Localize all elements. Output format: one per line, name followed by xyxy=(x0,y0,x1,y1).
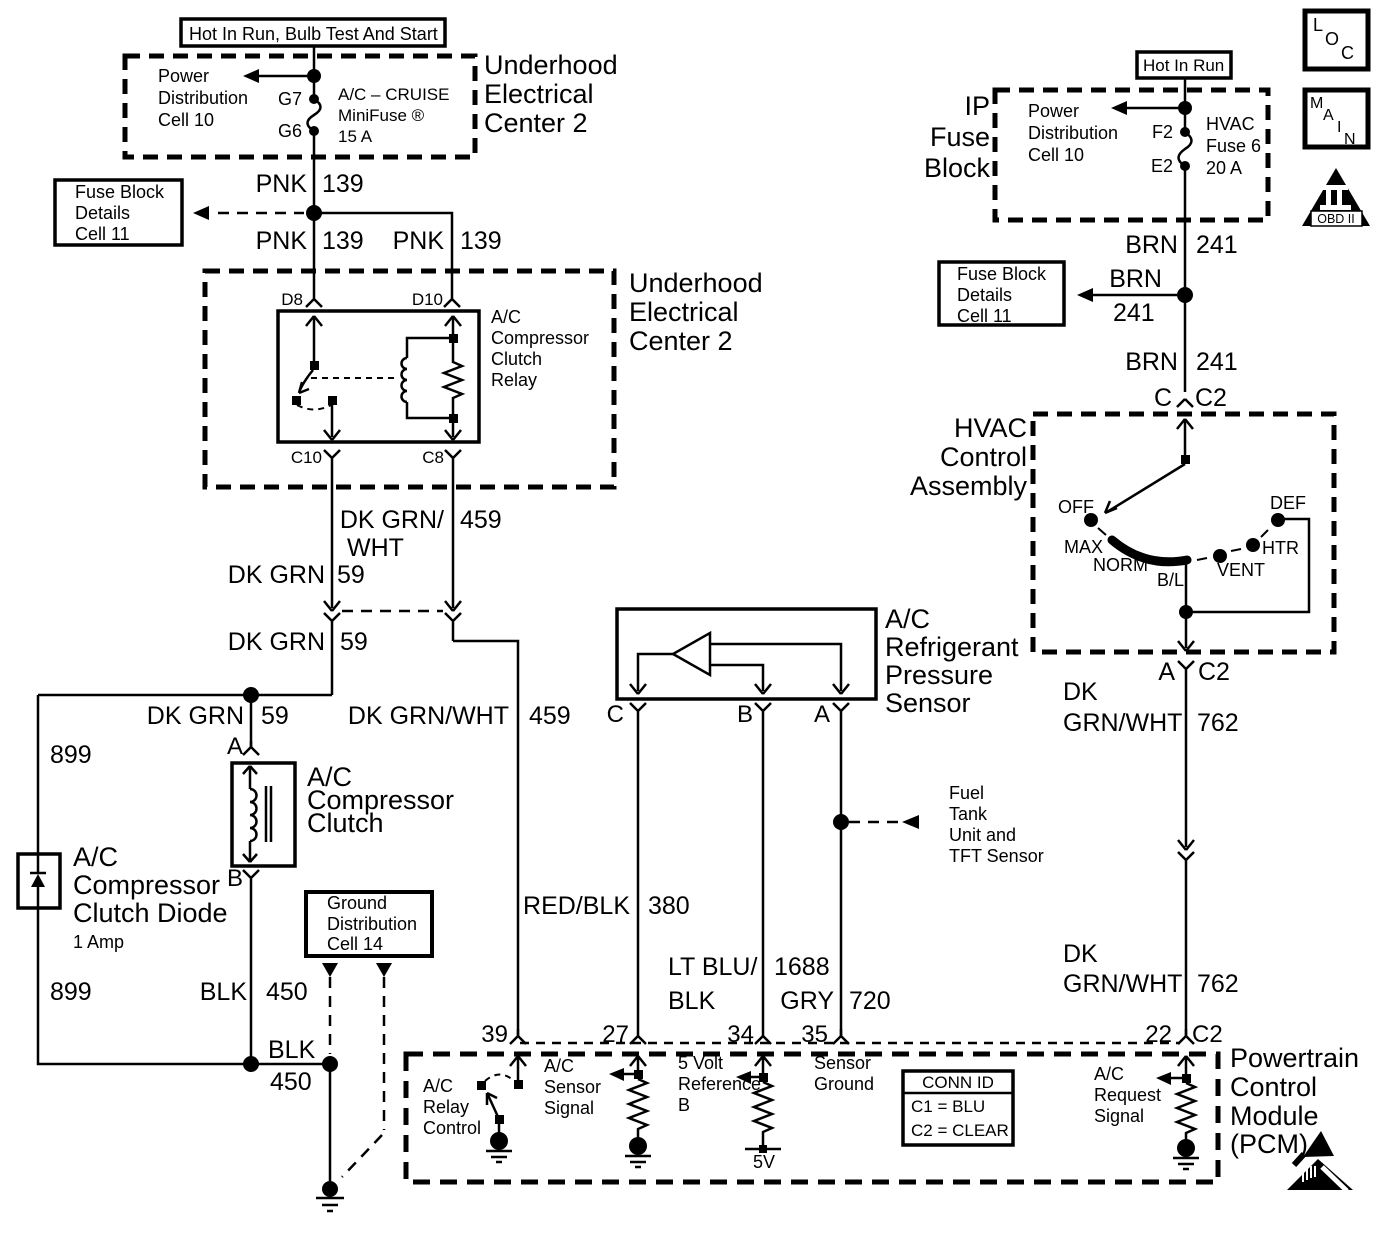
svg-text:Cell 11: Cell 11 xyxy=(957,306,1012,326)
node Hot In Run, Bulb Test And Start xyxy=(181,19,445,46)
svg-text:899: 899 xyxy=(50,741,92,769)
svg-text:VENT: VENT xyxy=(1217,560,1265,580)
svg-text:Details: Details xyxy=(957,285,1012,305)
svg-text:762: 762 xyxy=(1197,970,1239,998)
svg-text:139: 139 xyxy=(322,227,364,255)
svg-text:27: 27 xyxy=(602,1021,629,1048)
diode D1 A/C Compressor Clutch Diode xyxy=(18,854,60,908)
svg-text:Reference: Reference xyxy=(678,1074,761,1094)
wire to D8 xyxy=(313,213,316,294)
svg-text:DEF: DEF xyxy=(1270,493,1306,513)
switch contact arc MAX-NORM-B/L xyxy=(1112,540,1187,562)
svg-text:C2: C2 xyxy=(1192,1021,1223,1048)
svg-text:PNK: PNK xyxy=(256,227,308,255)
op-amp element inside sensor xyxy=(673,633,710,675)
svg-text:5 Volt: 5 Volt xyxy=(678,1053,723,1073)
dashed connector link xyxy=(342,610,443,613)
svg-text:C10: C10 xyxy=(291,448,322,467)
svg-text:22: 22 xyxy=(1145,1021,1172,1048)
dashed link OFF to MAX xyxy=(1098,528,1106,535)
svg-text:Relay: Relay xyxy=(491,370,537,390)
svg-text:Fuse 6: Fuse 6 xyxy=(1206,136,1261,156)
svg-text:BLK: BLK xyxy=(668,987,716,1015)
request tap arrow left xyxy=(1169,1077,1182,1080)
relay coil node upper xyxy=(449,334,458,343)
svg-text:OBD II: OBD II xyxy=(1317,212,1355,226)
svg-text:Fuse Block: Fuse Block xyxy=(75,182,165,202)
inline connector on DK GRN wire xyxy=(324,601,340,695)
A/C sensor signal input arrow xyxy=(630,1056,646,1070)
dashed ground reference diagonal xyxy=(342,1135,382,1177)
svg-text:A/C: A/C xyxy=(885,604,930,634)
clutch coil with plates xyxy=(243,766,257,862)
arrow to Power Distribution Cell 10 xyxy=(1120,107,1178,110)
svg-text:PNK: PNK xyxy=(256,170,308,198)
svg-text:N: N xyxy=(1344,131,1356,148)
node Fuse Block Details Cell 11 xyxy=(55,180,182,245)
svg-text:IP: IP xyxy=(964,91,990,121)
junction splice at HVAC output xyxy=(1179,605,1193,619)
svg-text:Request: Request xyxy=(1094,1085,1161,1105)
svg-text:Block: Block xyxy=(924,153,991,183)
svg-text:E2: E2 xyxy=(1151,156,1173,176)
svg-text:Clutch Diode: Clutch Diode xyxy=(73,898,228,928)
svg-text:C1 = BLU: C1 = BLU xyxy=(911,1097,985,1116)
switch position HTR xyxy=(1246,538,1260,552)
driver switch arm xyxy=(488,1095,499,1119)
relay coil xyxy=(407,338,453,358)
relay resistor (parallel) xyxy=(444,316,462,414)
svg-text:20 A: 20 A xyxy=(1206,158,1242,178)
dashed box Underhood Electrical Center 2 (relay section) xyxy=(205,271,614,487)
wire to internal ground xyxy=(498,1124,501,1133)
svg-text:Signal: Signal xyxy=(1094,1106,1144,1126)
svg-text:Tank: Tank xyxy=(949,804,988,824)
svg-text:NORM: NORM xyxy=(1093,555,1148,575)
dashed arc between driver contacts xyxy=(485,1075,514,1082)
svg-text:Distribution: Distribution xyxy=(327,914,417,934)
sensor supply from pin A xyxy=(710,644,849,694)
svg-text:720: 720 xyxy=(849,987,891,1015)
dashed reference wire to Fuel Tank Unit xyxy=(849,821,899,824)
svg-text:450: 450 xyxy=(270,1068,312,1096)
svg-text:Clutch: Clutch xyxy=(491,349,542,369)
svg-text:241: 241 xyxy=(1113,299,1155,327)
internal ground (sensor signal) xyxy=(629,1137,647,1155)
relay output contact to C10 xyxy=(328,396,337,405)
svg-text:Control: Control xyxy=(940,442,1027,472)
A/C Compressor Clutch box xyxy=(232,763,295,866)
svg-text:DK: DK xyxy=(1063,678,1098,706)
svg-text:Underhood: Underhood xyxy=(484,50,618,80)
svg-text:O: O xyxy=(1325,29,1339,49)
node Fuse Block Details Cell 11 xyxy=(939,262,1064,325)
svg-text:459: 459 xyxy=(460,506,502,534)
icon OBD II triangle xyxy=(1302,168,1370,226)
svg-text:A/C – CRUISE: A/C – CRUISE xyxy=(338,85,449,104)
svg-text:59: 59 xyxy=(261,702,289,730)
svg-text:Sensor: Sensor xyxy=(544,1077,601,1097)
dashed box IP Fuse Block xyxy=(995,90,1268,220)
wire DK GRN/WHT 762 xyxy=(1185,677,1188,843)
svg-text:139: 139 xyxy=(322,170,364,198)
relay switch arm xyxy=(300,370,313,390)
wire 899 left branch down xyxy=(37,695,40,854)
inline connector on DK GRN/WHT 762 wire xyxy=(1178,840,1194,1036)
svg-text:(PCM): (PCM) xyxy=(1230,1129,1308,1159)
svg-text:Relay: Relay xyxy=(423,1097,469,1117)
svg-text:Cell 14: Cell 14 xyxy=(327,934,383,954)
svg-text:C8: C8 xyxy=(422,448,444,467)
svg-text:F2: F2 xyxy=(1152,122,1173,142)
svg-text:M: M xyxy=(1310,95,1323,112)
svg-text:Sensor: Sensor xyxy=(885,688,971,718)
svg-text:Details: Details xyxy=(75,203,130,223)
resistor R3 (A/C request signal) xyxy=(1177,1083,1195,1139)
svg-text:Refrigerant: Refrigerant xyxy=(885,632,1019,662)
dashed arrow to Fuse Block Details Cell 11 xyxy=(218,212,304,215)
wire DEF to output xyxy=(1186,519,1309,612)
junction splice at ground lead xyxy=(322,1056,338,1072)
switch common feed arrow xyxy=(1177,419,1193,455)
svg-text:Module: Module xyxy=(1230,1101,1319,1131)
wire from Hot In Run box to fuse G7 xyxy=(313,46,316,99)
svg-text:GRN/WHT: GRN/WHT xyxy=(1063,970,1182,998)
wire BRN 241 xyxy=(1184,166,1187,288)
svg-text:BLK: BLK xyxy=(200,978,248,1006)
internal ground (A/C relay control) xyxy=(490,1132,508,1150)
svg-text:WHT: WHT xyxy=(347,534,404,562)
svg-text:Distribution: Distribution xyxy=(1028,123,1118,143)
node CONN ID table xyxy=(903,1071,1013,1145)
svg-text:Ground: Ground xyxy=(327,893,387,913)
node Ground Distribution Cell 14 xyxy=(306,892,432,956)
svg-text:A/C: A/C xyxy=(73,842,118,872)
svg-text:C: C xyxy=(607,701,624,728)
icon ESD warning xyxy=(1303,1131,1334,1157)
wire BLK 450 to ground splice xyxy=(251,1063,330,1066)
svg-text:459: 459 xyxy=(529,702,571,730)
dashed ground reference wire 1 xyxy=(329,977,332,1054)
wire DK GRN/WHT jog to pin 39 xyxy=(453,641,518,1036)
wire branch to D10 xyxy=(314,213,452,294)
svg-text:Center 2: Center 2 xyxy=(629,326,733,356)
svg-text:Fuse: Fuse xyxy=(930,122,990,152)
svg-text:C2: C2 xyxy=(1198,658,1230,686)
svg-text:Power: Power xyxy=(158,66,209,86)
svg-text:D8: D8 xyxy=(281,290,303,309)
svg-text:MAX: MAX xyxy=(1064,537,1103,557)
svg-text:C2 = CLEAR: C2 = CLEAR xyxy=(911,1121,1009,1140)
svg-text:Hot In Run: Hot In Run xyxy=(1143,56,1224,75)
pin C8 connector xyxy=(445,450,461,465)
junction dot at fuse feed xyxy=(307,69,321,83)
svg-text:B: B xyxy=(227,865,243,892)
wire BRN 241 to HVAC control xyxy=(1184,295,1187,392)
svg-text:CONN ID: CONN ID xyxy=(922,1073,994,1092)
svg-text:450: 450 xyxy=(266,978,308,1006)
internal ground (request signal) xyxy=(1177,1139,1195,1157)
dashed box Underhood Electrical Center 2 (fuse section) xyxy=(125,56,475,157)
svg-text:D10: D10 xyxy=(412,290,443,309)
dashed ground reference wire 2 xyxy=(383,977,386,1130)
svg-text:B/L: B/L xyxy=(1157,570,1184,590)
resistor R1 (A/C sensor signal pull-up) xyxy=(629,1079,647,1137)
sensor ground to pin B xyxy=(710,665,771,694)
svg-text:C: C xyxy=(1341,43,1354,63)
svg-text:PNK: PNK xyxy=(393,227,445,255)
svg-text:A/C: A/C xyxy=(491,307,521,327)
svg-text:BRN: BRN xyxy=(1109,265,1162,293)
svg-text:Compressor: Compressor xyxy=(491,328,589,348)
svg-text:DK GRN: DK GRN xyxy=(228,561,325,589)
ground reference arrow 2 xyxy=(376,963,392,977)
svg-text:1688: 1688 xyxy=(774,953,830,981)
ground G103 xyxy=(322,1181,338,1197)
svg-text:Fuse Block: Fuse Block xyxy=(957,264,1047,284)
wire from Hot In Run to fuse F2 xyxy=(1184,78,1187,132)
svg-text:TFT Sensor: TFT Sensor xyxy=(949,846,1044,866)
svg-text:I: I xyxy=(1337,119,1341,136)
svg-text:RED/BLK: RED/BLK xyxy=(523,892,630,920)
svg-text:Power: Power xyxy=(1028,101,1079,121)
svg-text:Cell 10: Cell 10 xyxy=(1028,145,1084,165)
svg-text:LT BLU/: LT BLU/ xyxy=(668,953,757,981)
svg-text:HVAC: HVAC xyxy=(954,413,1027,443)
svg-text:Control: Control xyxy=(423,1118,481,1138)
fuse HVAC Fuse 6 20A, terminals F2/E2 xyxy=(1180,127,1190,137)
svg-text:OFF: OFF xyxy=(1058,497,1094,517)
svg-text:Compressor: Compressor xyxy=(73,870,220,900)
svg-text:241: 241 xyxy=(1196,231,1238,259)
wire to ground G103 xyxy=(329,1064,332,1181)
svg-text:BRN: BRN xyxy=(1125,231,1178,259)
pin D8 connector xyxy=(306,294,322,307)
svg-text:A: A xyxy=(1323,107,1334,124)
svg-text:Electrical: Electrical xyxy=(484,79,594,109)
svg-text:DK GRN/WHT: DK GRN/WHT xyxy=(348,702,509,730)
relay switch contact (normally open) xyxy=(292,396,301,405)
svg-text:A/C: A/C xyxy=(1094,1064,1124,1084)
svg-text:DK GRN: DK GRN xyxy=(228,628,325,656)
fuse A/C-CRUISE MiniFuse 15A, terminals G7/G6 xyxy=(309,94,319,104)
switch position OFF xyxy=(1084,513,1098,527)
sensor B1 A/C Refrigerant Pressure Sensor box xyxy=(617,609,876,699)
svg-text:5V: 5V xyxy=(753,1152,775,1172)
svg-text:899: 899 xyxy=(50,978,92,1006)
dashed box Powertrain Control Module xyxy=(406,1054,1218,1182)
5 volt reference arrow xyxy=(755,1056,771,1073)
svg-text:C: C xyxy=(1154,384,1172,412)
svg-text:241: 241 xyxy=(1196,348,1238,376)
svg-text:GRN/WHT: GRN/WHT xyxy=(1063,709,1182,737)
dashed link arc to VENT xyxy=(1197,558,1207,560)
arrow to Fuse Block Details Cell 11 xyxy=(1086,294,1177,297)
svg-text:B: B xyxy=(678,1095,690,1115)
svg-text:Fuel: Fuel xyxy=(949,783,984,803)
svg-text:A: A xyxy=(227,733,243,760)
wire RED/BLK 380 xyxy=(637,718,640,1036)
svg-text:59: 59 xyxy=(340,628,368,656)
node Hot In Run xyxy=(1137,52,1231,78)
junction PNK 139 splice xyxy=(306,205,322,221)
svg-text:Powertrain: Powertrain xyxy=(1230,1043,1359,1073)
svg-text:Unit and: Unit and xyxy=(949,825,1016,845)
svg-text:35: 35 xyxy=(801,1021,828,1048)
svg-text:Underhood: Underhood xyxy=(629,268,763,298)
wire PNK 139 from fuse to junction xyxy=(313,131,316,206)
junction BRN 241 splice xyxy=(1177,287,1193,303)
svg-text:Assembly: Assembly xyxy=(910,471,1028,501)
svg-text:Distribution: Distribution xyxy=(158,88,248,108)
icon LOC xyxy=(1305,11,1368,69)
svg-text:762: 762 xyxy=(1197,709,1239,737)
inline connector on DK GRN/WHT wire xyxy=(445,601,461,641)
wire 899 lower xyxy=(38,908,251,1064)
switch wiper arm toward OFF xyxy=(1107,464,1185,512)
pin C10 connector xyxy=(324,450,340,465)
wire C10 down xyxy=(331,465,334,604)
svg-text:Clutch: Clutch xyxy=(307,808,384,838)
wire GRY 720 xyxy=(840,718,843,1036)
svg-text:15 A: 15 A xyxy=(338,127,373,146)
wire DK GRN 59 horizontal xyxy=(38,694,332,697)
svg-text:A/C: A/C xyxy=(423,1076,453,1096)
PCM connector dashed line xyxy=(520,1042,1180,1045)
svg-text:Cell 11: Cell 11 xyxy=(75,224,130,244)
svg-text:G7: G7 xyxy=(278,89,302,109)
wire B/L to output junction xyxy=(1185,560,1188,612)
dashed box HVAC Control Assembly xyxy=(1033,414,1334,652)
svg-text:380: 380 xyxy=(648,892,690,920)
svg-text:C2: C2 xyxy=(1195,384,1227,412)
dashed arc between contacts xyxy=(297,405,331,410)
svg-text:BLK: BLK xyxy=(268,1036,316,1064)
switch position VENT xyxy=(1213,549,1227,563)
svg-text:MiniFuse ®: MiniFuse ® xyxy=(338,106,425,125)
junction splice to fuel tank sender xyxy=(833,814,849,830)
svg-text:Pressure: Pressure xyxy=(885,660,993,690)
resistor R2 (5V reference) xyxy=(754,1082,772,1149)
5V supply rail xyxy=(745,1148,781,1151)
svg-text:DK GRN: DK GRN xyxy=(147,702,244,730)
wire to pin A xyxy=(250,695,253,747)
A/C request signal arrow xyxy=(1178,1056,1194,1074)
ground reference arrow 1 xyxy=(322,963,338,977)
svg-text:Hot In Run, Bulb Test And Star: Hot In Run, Bulb Test And Start xyxy=(189,24,438,44)
switch contact (open) xyxy=(477,1081,486,1090)
junction node A feed xyxy=(243,687,259,703)
A/C relay control driver arrow xyxy=(510,1056,526,1080)
dashed link VENT to HTR xyxy=(1231,549,1241,551)
svg-text:GRY: GRY xyxy=(780,987,834,1015)
svg-text:A/C: A/C xyxy=(544,1056,574,1076)
svg-text:DK GRN/: DK GRN/ xyxy=(340,506,444,534)
svg-text:L: L xyxy=(1313,15,1323,35)
svg-text:Center 2: Center 2 xyxy=(484,108,588,138)
dashed link HTR to DEF xyxy=(1261,530,1268,537)
svg-text:BRN: BRN xyxy=(1125,348,1178,376)
svg-text:HTR: HTR xyxy=(1262,538,1299,558)
svg-text:39: 39 xyxy=(481,1021,508,1048)
arrow to Power Distribution Cell 10 xyxy=(250,75,307,78)
wire C8 down xyxy=(452,465,455,604)
svg-text:1 Amp: 1 Amp xyxy=(73,932,124,952)
relay coil node lower xyxy=(449,414,458,423)
svg-text:HVAC: HVAC xyxy=(1206,114,1255,134)
icon MAIN xyxy=(1305,90,1368,147)
svg-text:Sensor: Sensor xyxy=(814,1053,871,1073)
svg-text:59: 59 xyxy=(337,561,365,589)
wire BLK 450 from B xyxy=(250,885,253,1064)
sensor output to pin C xyxy=(630,654,673,694)
svg-text:Cell 10: Cell 10 xyxy=(158,110,214,130)
svg-text:Ground: Ground xyxy=(814,1074,874,1094)
svg-text:A: A xyxy=(1158,658,1175,686)
svg-text:34: 34 xyxy=(727,1021,754,1048)
output arrow to pin A xyxy=(1178,612,1194,651)
svg-text:Signal: Signal xyxy=(544,1098,594,1118)
svg-text:DK: DK xyxy=(1063,940,1098,968)
svg-text:G6: G6 xyxy=(278,121,302,141)
switch contact at pin 39 xyxy=(514,1080,523,1089)
svg-text:Control: Control xyxy=(1230,1072,1317,1102)
pin D10 connector xyxy=(444,294,460,307)
svg-text:Electrical: Electrical xyxy=(629,297,739,327)
dashed actuation line to coil xyxy=(311,377,394,379)
junction splice BLK 450 xyxy=(243,1056,259,1072)
signal tap arrow left xyxy=(622,1073,634,1076)
relay switch common arrow from D8 xyxy=(306,316,322,363)
svg-text:A: A xyxy=(814,701,830,728)
wire LT BLU/BLK 1688 xyxy=(762,718,765,1036)
junction dot at fuse feed xyxy=(1178,101,1192,115)
reference tap arrow left xyxy=(749,1076,759,1079)
switch position DEF xyxy=(1271,513,1285,527)
svg-text:B: B xyxy=(737,701,753,728)
relay U1 A/C Compressor Clutch Relay box xyxy=(278,311,479,442)
svg-text:139: 139 xyxy=(460,227,502,255)
